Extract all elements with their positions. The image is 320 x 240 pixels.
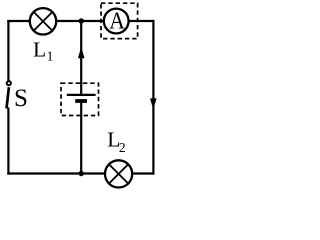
svg-text:S: S bbox=[14, 85, 28, 112]
ammeter A bbox=[104, 7, 129, 34]
svg-text:L: L bbox=[33, 38, 46, 62]
switch S bbox=[7, 81, 11, 108]
label L1 bbox=[33, 38, 53, 64]
battery cell: long plate (+) bbox=[67, 94, 96, 96]
lamp L2 bbox=[105, 160, 132, 187]
wire: middle branch (battery - terminal to bottom junction) bbox=[80, 101, 82, 174]
svg-text:1: 1 bbox=[47, 49, 54, 64]
svg-text:A: A bbox=[109, 7, 125, 34]
wire: bottom conductor bbox=[7, 172, 154, 174]
wire: middle branch (junction to battery + terminal) bbox=[80, 21, 82, 95]
lamp L1 bbox=[30, 8, 56, 34]
wire: right conductor bbox=[152, 20, 154, 175]
wire: top conductor bbox=[7, 20, 153, 22]
current direction arrow (up) on middle branch bbox=[78, 47, 85, 58]
current direction arrow (down) on right conductor bbox=[150, 98, 157, 109]
battery cell: short thick plate (-) bbox=[75, 99, 87, 103]
label L2 bbox=[107, 127, 125, 155]
svg-text:2: 2 bbox=[119, 140, 126, 155]
battery dashed box (cell under test) bbox=[61, 83, 99, 115]
ammeter U1 (dashed box = meter under test) bbox=[101, 3, 138, 38]
node: junction dot at top (lamp L1 / ammeter / battery branch) bbox=[79, 18, 84, 23]
node: junction dot at bottom (battery branch / bottom conductor) bbox=[79, 171, 84, 176]
wire: left conductor (upper, above switch) bbox=[7, 20, 9, 81]
wire: left conductor (lower, below switch) bbox=[7, 108, 9, 175]
